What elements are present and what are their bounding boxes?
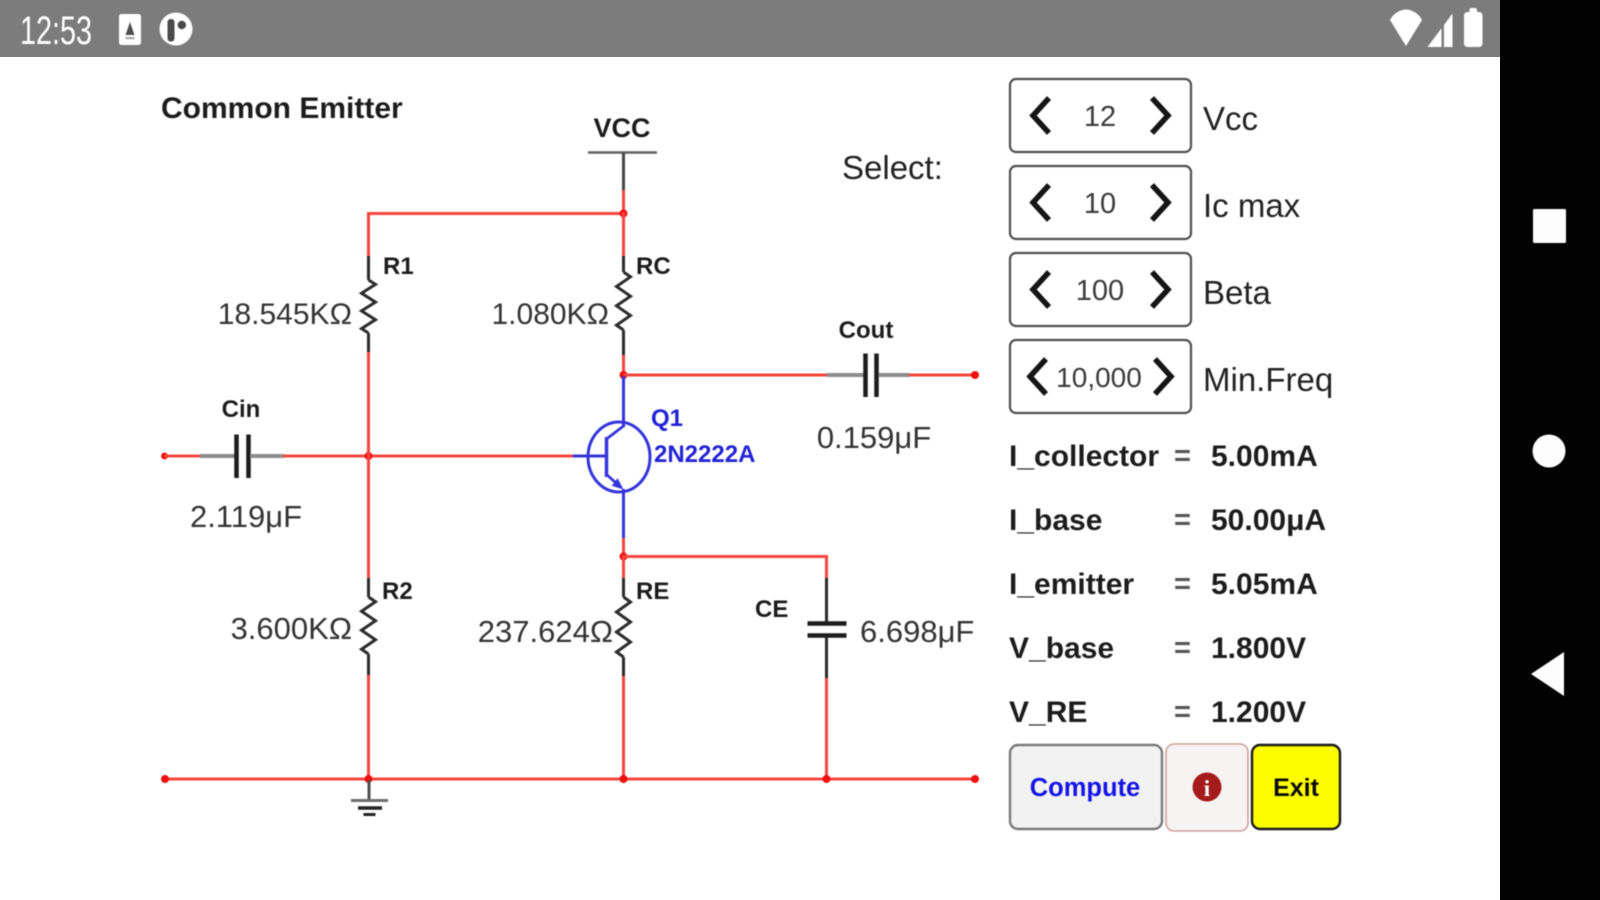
svg-text:RC: RC — [636, 253, 671, 280]
node rail RE junction — [620, 775, 628, 783]
svg-text:Min.Freq: Min.Freq — [1203, 361, 1333, 398]
svg-text:V_RE: V_RE — [1009, 696, 1087, 729]
svg-text:0.159μF: 0.159μF — [817, 420, 931, 455]
wire R2 bottom — [367, 675, 370, 780]
value label Cin 2.119µF — [190, 499, 302, 534]
spinner Beta — [1010, 253, 1191, 326]
status bar notification icon A — [119, 14, 141, 45]
svg-text:1.080KΩ: 1.080KΩ — [491, 298, 609, 331]
label Ic max — [1203, 187, 1301, 224]
svg-text:=: = — [1174, 440, 1191, 472]
svg-text:I_collector: I_collector — [1009, 440, 1159, 473]
wire top rail — [369, 212, 624, 215]
transistor Q1 2N2222A — [573, 405, 755, 492]
node rail CE junction — [823, 775, 831, 783]
node input terminal — [161, 453, 168, 460]
wire ground rail — [165, 778, 975, 781]
label Beta — [1203, 274, 1272, 311]
svg-text:10,000: 10,000 — [1056, 362, 1142, 393]
label Select: — [842, 149, 943, 186]
svg-text:50.00μA: 50.00μA — [1211, 504, 1326, 537]
value label R1 18.545KΩ — [218, 298, 352, 331]
node rail R2 junction — [365, 775, 373, 783]
svg-text:Compute: Compute — [1030, 774, 1141, 802]
svg-text:12:53: 12:53 — [20, 9, 92, 53]
svg-text:Exit: Exit — [1273, 774, 1320, 802]
nav bar home circle button — [1533, 435, 1566, 468]
svg-text:R2: R2 — [382, 578, 413, 605]
ground — [351, 780, 388, 815]
svg-text:i: i — [1204, 776, 1211, 801]
wire Cin to base — [283, 455, 574, 458]
svg-text:Cout: Cout — [839, 317, 894, 344]
svg-text:=: = — [1174, 504, 1191, 536]
button info — [1166, 744, 1248, 831]
svg-text:10: 10 — [1084, 188, 1116, 220]
svg-text:5.05mA: 5.05mA — [1211, 568, 1318, 601]
wire emitter red — [622, 538, 625, 558]
svg-text:237.624Ω: 237.624Ω — [478, 614, 613, 649]
value label Cout 0.159µF — [817, 420, 931, 455]
svg-text:Cin: Cin — [222, 396, 261, 423]
svg-text:2.119μF: 2.119μF — [190, 499, 302, 534]
result I_collector — [1009, 440, 1318, 473]
value label RC 1.080KΩ — [491, 298, 609, 331]
svg-text:I_emitter: I_emitter — [1009, 568, 1134, 601]
svg-text:Vcc: Vcc — [1203, 100, 1258, 137]
value label CE 6.698µF — [860, 614, 974, 649]
node rail right end — [971, 775, 979, 783]
svg-text:V_base: V_base — [1009, 632, 1114, 665]
resistor RE — [617, 555, 670, 677]
resistor R2 — [362, 578, 413, 676]
svg-text:Select:: Select: — [842, 149, 943, 186]
status bar notification icon P circle — [160, 13, 193, 46]
svg-text:2N2222A: 2N2222A — [654, 441, 755, 468]
label Min.Freq — [1203, 361, 1333, 398]
result V_RE — [1009, 696, 1306, 729]
value label R2 3.600KΩ — [231, 611, 352, 646]
wire collector to Cout — [624, 374, 829, 377]
label Vcc — [1203, 100, 1258, 137]
svg-text:I_base: I_base — [1009, 504, 1102, 537]
value label RE 237.624Ω — [478, 614, 613, 649]
wire Cout to output — [909, 374, 975, 377]
spinner Ic max — [1010, 166, 1191, 239]
svg-text:1.800V: 1.800V — [1211, 632, 1306, 665]
node rail left end — [161, 775, 169, 783]
status bar — [0, 0, 1500, 57]
wire emitter to CE — [624, 555, 829, 558]
svg-text:Common Emitter: Common Emitter — [161, 92, 403, 125]
wire input to Cin — [165, 455, 202, 458]
result I_base — [1009, 504, 1326, 537]
wire R1 top — [367, 212, 370, 257]
node output terminal — [971, 371, 979, 379]
button Exit — [1252, 745, 1340, 829]
spinner Vcc — [1010, 79, 1191, 152]
android navigation bar — [1500, 0, 1600, 900]
svg-text:Q1: Q1 — [651, 405, 683, 432]
capacitor Cout — [827, 317, 910, 397]
wire collector blue — [622, 376, 625, 427]
status bar wifi icon — [1390, 10, 1422, 47]
svg-text:Ic max: Ic max — [1203, 187, 1301, 224]
svg-text:=: = — [1174, 632, 1191, 664]
svg-text:=: = — [1174, 696, 1191, 728]
status bar battery icon — [1464, 8, 1483, 47]
svg-text:RE: RE — [636, 578, 669, 605]
button Compute — [1010, 745, 1162, 829]
VCC power terminal — [588, 113, 657, 191]
svg-text:R1: R1 — [383, 253, 414, 280]
title Common Emitter — [161, 92, 403, 125]
resistor R1 — [362, 253, 414, 354]
capacitor CE — [755, 555, 847, 679]
svg-text:100: 100 — [1076, 275, 1124, 307]
status bar cellular signal icon — [1428, 14, 1453, 48]
svg-text:Beta: Beta — [1203, 274, 1272, 311]
nav bar recent apps square button — [1533, 209, 1566, 243]
svg-text:12: 12 — [1084, 101, 1116, 133]
svg-text:CE: CE — [755, 596, 788, 623]
node emitter junction — [620, 553, 628, 561]
node collector junction — [620, 371, 628, 379]
svg-text:=: = — [1174, 568, 1191, 600]
svg-text:1.200V: 1.200V — [1211, 696, 1306, 729]
capacitor Cin — [200, 396, 284, 478]
node VCC junction — [620, 210, 628, 218]
nav bar back triangle button — [1531, 652, 1564, 696]
wire CE bottom — [825, 678, 828, 780]
wire VCC stem red — [622, 190, 625, 215]
wire RE bottom — [622, 676, 625, 780]
wire emitter blue — [622, 489, 625, 540]
svg-text:5.00mA: 5.00mA — [1211, 440, 1318, 473]
node base junction — [365, 452, 373, 460]
svg-text:6.698μF: 6.698μF — [860, 614, 974, 649]
resistor RC — [617, 212, 671, 377]
status bar clock 12:53 — [20, 9, 92, 53]
result I_emitter — [1009, 568, 1318, 601]
result V_base — [1009, 632, 1306, 665]
svg-text:VCC: VCC — [593, 113, 650, 143]
wire R1 to R2 vertical — [367, 352, 370, 580]
svg-text:18.545KΩ: 18.545KΩ — [218, 298, 352, 331]
spinner Min.Freq — [1010, 340, 1191, 413]
svg-text:3.600KΩ: 3.600KΩ — [231, 611, 352, 646]
